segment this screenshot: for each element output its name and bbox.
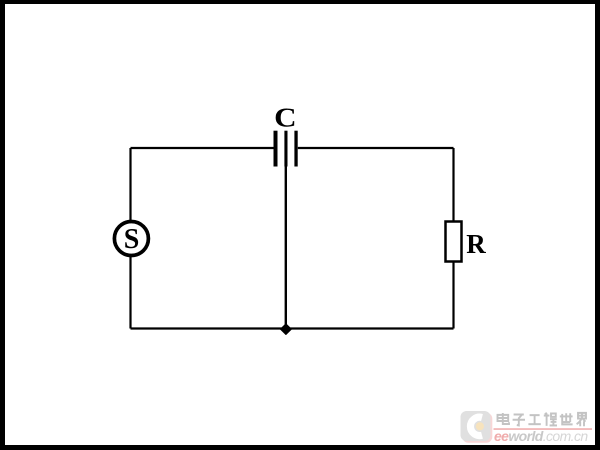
svg-text:S: S xyxy=(124,224,140,255)
svg-text:C: C xyxy=(274,101,297,132)
svg-text:R: R xyxy=(466,229,486,259)
svg-text:eeworld.com.cn: eeworld.com.cn xyxy=(494,428,588,444)
